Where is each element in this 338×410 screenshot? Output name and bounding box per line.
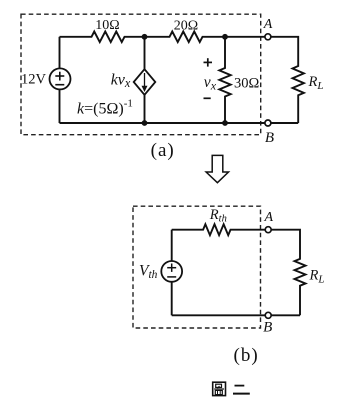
svg-text:A: A <box>263 17 273 32</box>
svg-text:(b): (b) <box>234 345 259 366</box>
svg-text:30Ω: 30Ω <box>234 76 260 92</box>
svg-text:B: B <box>263 320 272 336</box>
svg-text:20Ω: 20Ω <box>174 18 198 33</box>
svg-text:(a): (a) <box>151 140 175 161</box>
svg-text:B: B <box>265 130 274 146</box>
svg-text:10Ω: 10Ω <box>95 18 119 33</box>
svg-text:A: A <box>264 210 274 225</box>
svg-text:12V: 12V <box>21 72 47 88</box>
